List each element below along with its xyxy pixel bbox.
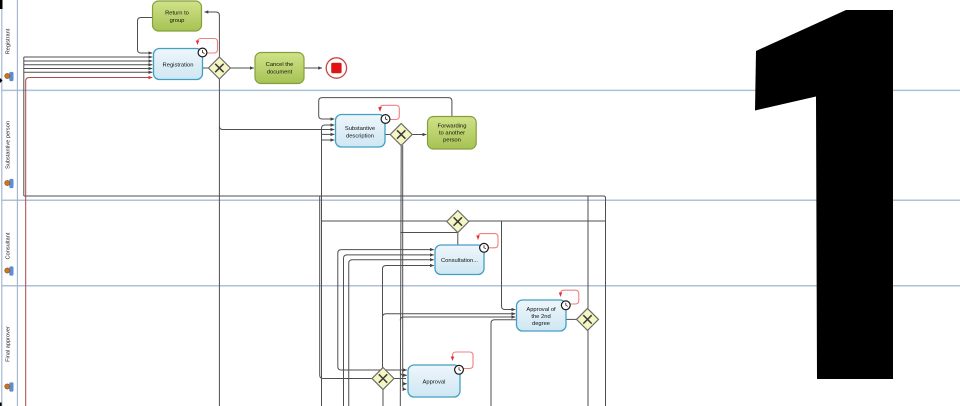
svg-text:Approval: Approval [423,380,446,386]
task Forwarding to another person [428,117,477,150]
wire gateway2 down vertical [399,145,402,406]
wire horizontal into approval2nd y317 [400,317,515,321]
wire substantive to gateway2 [385,134,391,136]
svg-text:Registration: Registration [163,63,194,69]
svg-text:document: document [267,70,293,76]
wire consultation feeder 1 into approval [338,367,407,371]
wire vertical pair x402 [403,145,407,389]
wire return-to-group out to registration [138,18,153,54]
svg-text:Final approver: Final approver [6,326,12,362]
gateway 3 [447,211,469,233]
svg-text:person: person [443,138,461,144]
wire vertical feeder x321 [321,129,323,406]
task Approval [408,365,460,397]
task Approval of the 2nd degree [517,300,567,331]
wire left feedback vertical black [23,57,25,196]
timer clock approval [455,365,464,374]
pool edge mark bottom [0,403,2,406]
wire gateway2 to forwarding [412,134,426,136]
red self loop registration [198,39,218,54]
gateway 4 [372,368,394,390]
timer clock approval2nd [561,301,570,310]
wire feeder arrow substantive 2 [322,125,335,129]
red self loop substantive [380,105,399,119]
lane icon Substantive person [5,179,14,188]
wire consultation feeder 2 [344,255,434,406]
wire feeder arrow substantive 4 [322,133,335,135]
svg-text:Registrant: Registrant [6,28,12,54]
wire into gateway4 from left [320,196,372,379]
wire horizontal y221 to x606 down [322,220,606,222]
task Cancel the document [255,53,304,84]
task Substantive description [336,115,386,148]
wire approval2nd left exit down [491,320,517,406]
wire y232 stub [400,232,458,234]
svg-text:the 2nd: the 2nd [531,314,550,320]
wire gateway3 down into consultation [457,232,459,245]
wire approval feeder y375 [400,372,407,376]
svg-text:group: group [170,18,185,24]
wire fan into registration 1 [24,56,153,58]
lane icon Consultant [5,266,14,275]
wire forwarding loop back to substantive [319,98,452,119]
wire cancel to end event [304,67,322,69]
lane label column right border [16,0,18,406]
end event terminate [326,58,346,78]
wire gateway1 up to return-to-group [205,12,220,57]
red self loop approval2nd [561,290,579,304]
gateway 2 [390,124,412,146]
svg-text:to another: to another [439,131,465,137]
wire consultation feeder 3 [349,260,434,406]
red self loop consultation [478,234,498,248]
wire gateway4 to approval [394,378,406,380]
pool edge mark top [0,0,3,9]
wire approval2nd to gateway5 [566,318,577,320]
wire fan into registration 2 [24,60,153,62]
wire gateway4 down stub [382,389,384,406]
task Return to group [153,1,202,31]
wire gateway1 down long vertical [218,79,220,406]
wire long horizontal y196 [24,196,606,406]
red self loop approval [453,352,474,369]
wire vertical x588 [587,196,589,406]
big digit 1 overlay [755,10,893,379]
svg-text:description: description [346,134,374,140]
timer clock consultation [480,243,489,252]
lane divider 1 [2,89,960,91]
wire horizontal into approval2nd y313.8 [383,314,516,318]
wire registration to gateway1 [203,67,209,69]
task Registration [154,49,203,80]
wire consultation feeder 4 from gateway4 line [383,266,434,368]
gateway 1 [208,57,230,79]
lane icon Final approver [5,382,14,391]
wire red feedback vertical [26,78,153,406]
lane label column left border [1,0,3,406]
svg-text:Consultant: Consultant [6,232,12,259]
svg-text:Substantive: Substantive [345,126,375,132]
timer clock substantive [381,115,390,124]
wire gateway1 branch to substantive [219,126,334,130]
lane divider 2 [2,199,960,201]
lane divider 3 [2,285,960,287]
wire approval feeder y383 [403,383,407,385]
wire feeder arrow substantive 5 [322,139,335,141]
svg-text:Approval of: Approval of [526,307,556,313]
svg-text:degree: degree [532,321,550,327]
svg-text:Forwarding: Forwarding [438,124,467,130]
wire fan into registration 4 [24,68,153,70]
gateway 5 [577,308,599,330]
wire gateway1 to cancel [231,67,254,69]
task Consultation [435,245,484,275]
lane icon Registrant [5,72,14,81]
wire fan into registration 3 [24,64,153,66]
pool edge mark mid [0,78,3,83]
wire fan into registration 5 [24,71,153,73]
svg-text:Return to: Return to [165,11,189,17]
svg-text:Cancel the: Cancel the [266,62,294,68]
svg-text:Consultation...: Consultation... [441,258,478,264]
svg-text:Substantive person: Substantive person [6,121,12,169]
wire consultation feeder 1 [338,250,434,367]
wire x501 into approval2nd [502,221,516,310]
timer clock registration [198,48,207,57]
